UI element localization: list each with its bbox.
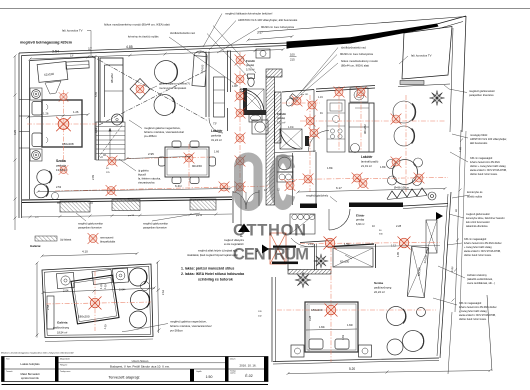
- svg-text:3.51: 3.51: [94, 127, 98, 133]
- wall szoba2 bottom: [273, 358, 439, 362]
- leaders top right: [300, 48, 338, 94]
- svg-text:parapetben kivezetve: parapetben kivezetve: [143, 227, 167, 230]
- svg-text:takarónál elburkolva: takarónál elburkolva: [466, 225, 488, 228]
- svg-text:1.29: 1.29: [99, 283, 104, 289]
- svg-text:Makó Bernadett: Makó Bernadett: [21, 372, 40, 376]
- axis h furdo2: [282, 102, 320, 104]
- svg-text:180x200: 180x200: [311, 308, 323, 312]
- svg-text:3.28: 3.28: [308, 315, 312, 321]
- dining table 90x150: [165, 147, 209, 177]
- svg-text:2.54: 2.54: [52, 50, 59, 54]
- svg-text:90x90 cm ives zuhanyútca: 90x90 cm ives zuhanyútca: [340, 52, 373, 56]
- axis h szoba1: [27, 123, 97, 125]
- svg-text:2.99: 2.99: [91, 174, 95, 180]
- svg-text:100: 100: [290, 53, 295, 57]
- svg-text:meglévő belmagasság:420cm: meglévő belmagasság:420cm: [20, 41, 73, 45]
- stove counter: [290, 214, 315, 234]
- svg-text:parketta: parketta: [211, 134, 222, 138]
- svg-text:1.59¹: 1.59¹: [344, 243, 350, 246]
- svg-text:fa, fehérre mázolva,: fa, fehérre mázolva,: [138, 177, 161, 181]
- couch 98x202: [100, 58, 123, 122]
- red crosshair markers: [56, 55, 424, 317]
- svg-text:1.26: 1.26: [43, 112, 49, 116]
- svg-text:345 cm magasságtól:: 345 cm magasságtól:: [459, 302, 482, 305]
- axis v table: [188, 144, 190, 190]
- svg-text:meglévő gázkonvektor: meglévő gázkonvektor: [469, 89, 495, 93]
- dim left chain: [14, 56, 16, 230]
- leader galaljan: [148, 86, 157, 90]
- svg-text:345 cm magasságtól:: 345 cm magasságtól:: [470, 157, 493, 160]
- svg-text:2.04¹: 2.04¹: [119, 288, 125, 292]
- svg-text:2.95: 2.95: [148, 152, 154, 156]
- leader galeria note: [122, 324, 168, 332]
- leader stove label: [330, 197, 337, 203]
- dim right lower: [448, 312, 452, 374]
- round table: [393, 160, 418, 185]
- svg-text:padlószőnyeg: padlószőnyeg: [53, 326, 70, 330]
- cabinet M top: [256, 49, 270, 58]
- dim chain bottom wall: [22, 214, 232, 217]
- svg-text:90x90 cm ives zuhanyútca: 90x90 cm ives zuhanyútca: [261, 25, 294, 29]
- radiator 1: [60, 201, 90, 212]
- wardrobe 62x100: [37, 61, 68, 82]
- leader radiator labels: [76, 213, 86, 221]
- svg-text:diszléc felett: fehér festés.: diszléc felett: fehér festés.: [459, 318, 487, 321]
- wall jamb segments entry2: [273, 246, 296, 248]
- svg-text:csere textíliáknak, stb...): csere textíliáknak, stb...): [467, 281, 495, 285]
- axis v kitchen b: [360, 86, 362, 150]
- svg-text:Ø=96-108cm: Ø=96-108cm: [394, 186, 409, 190]
- stairs: [96, 122, 125, 160]
- svg-text:mennyezeti lámpatest: mennyezeti lámpatest: [159, 86, 186, 90]
- leader zarhato: [438, 266, 465, 278]
- column black: [305, 136, 309, 146]
- svg-text:diszléc felett: fehér festés.: diszléc felett: fehér festés.: [470, 173, 498, 176]
- svg-text:1.66: 1.66: [214, 150, 220, 154]
- axis v right: [405, 95, 407, 192]
- leader kemeny: [452, 195, 470, 198]
- svg-text:új galéria: új galéria: [138, 169, 149, 173]
- svg-text:kék színű fa konvektor: kék színű fa konvektor: [466, 221, 490, 224]
- svg-text:2.17: 2.17: [257, 31, 263, 35]
- svg-text:tisztító nyílás: tisztító nyílás: [467, 195, 483, 199]
- svg-text:62x180: 62x180: [417, 266, 422, 276]
- svg-text:parapetben kivezetve: parapetben kivezetve: [78, 227, 102, 230]
- svg-text:pv+266cm: pv+266cm: [170, 329, 184, 333]
- svg-text:5.20: 5.20: [349, 367, 355, 371]
- svg-text:mennyezeti: mennyezeti: [100, 236, 114, 240]
- svg-text:fehérre festett Anro RV-06/A d: fehérre festett Anro RV-06/A diszléc: [464, 242, 502, 245]
- dim right chain a: [455, 130, 461, 312]
- svg-text:2.53: 2.53: [161, 289, 165, 295]
- door arcs double corridor: [233, 192, 246, 209]
- svg-text:1:50: 1:50: [206, 375, 213, 379]
- svg-text:18,54 m²: 18,54 m²: [57, 330, 67, 334]
- svg-text:aletta a falszín: NCS S7016-R7: aletta a falszín: NCS S7016-R70B,: [464, 250, 501, 253]
- axis v galeria: [94, 271, 96, 331]
- svg-text:21,01 m²: 21,01 m²: [361, 164, 372, 168]
- svg-text:6.41¹: 6.41¹: [175, 184, 182, 188]
- table texts: [6, 357, 236, 374]
- svg-text:kéménybe kötve, falszínhez has: kéménybe kötve, falszínhez hasonló: [466, 217, 505, 220]
- svg-text:Lakás felújítás: Lakás felújítás: [20, 362, 40, 366]
- svg-text:+ meleg fehér LED szalag: + meleg fehér LED szalag: [464, 246, 492, 249]
- svg-text:215: 215: [290, 58, 295, 62]
- svg-text:parapetben kivezetve: parapetben kivezetve: [469, 93, 494, 97]
- axis v szoba2: [330, 238, 332, 362]
- svg-text:13°: 13°: [70, 55, 74, 58]
- wall furdo2 top: [282, 90, 314, 93]
- wardrobe 62x150: [333, 248, 373, 267]
- galeria outline: [42, 264, 153, 338]
- svg-text:6,92 m²: 6,92 m²: [356, 223, 365, 226]
- svg-text:2.04: 2.04: [63, 289, 69, 293]
- bed 180x208: [42, 100, 82, 147]
- hatched walls bathrooms: [266, 69, 331, 274]
- svg-text:2.53: 2.53: [56, 185, 62, 189]
- svg-text:visszasiszolva: visszasiszolva: [138, 181, 155, 185]
- nightstand right: [359, 345, 372, 357]
- couch2 90x202: [349, 103, 374, 152]
- svg-text:6.17: 6.17: [336, 186, 342, 190]
- entry wall black segments: [300, 204, 317, 209]
- svg-text:Fürdő: Fürdő: [246, 59, 255, 63]
- svg-text:meglévő falikazán kéménybe bek: meglévő falikazán kéménybe bekötve!: [225, 12, 273, 16]
- svg-text:Galéria:: Galéria:: [30, 244, 41, 248]
- armchair r1: [393, 101, 415, 123]
- nightstand left: [291, 345, 304, 357]
- svg-text:Galéria: Galéria: [57, 321, 68, 325]
- svg-text:4.28: 4.28: [458, 146, 462, 152]
- svg-text:1.84²: 1.84²: [347, 323, 353, 327]
- galeria bed 180x200: [71, 275, 119, 324]
- leader 345a: [450, 152, 468, 162]
- wall washer niche: [292, 153, 294, 205]
- svg-text:Tervező:: Tervező:: [6, 371, 13, 373]
- svg-text:2016. 10. 16.: 2016. 10. 16.: [240, 363, 257, 367]
- svg-text:180x208: 180x208: [62, 142, 74, 146]
- svg-text:22,22 m²: 22,22 m²: [374, 290, 385, 294]
- plant right: [430, 91, 444, 105]
- svg-text:greslap: greslap: [277, 117, 286, 120]
- svg-text:kisablakok, (lásd meglévő foly: kisablakok, (lásd meglévő folyosó bejára…: [187, 254, 238, 257]
- svg-text:lámpakioldás: lámpakioldás: [100, 240, 116, 244]
- svg-text:Terv:: Terv:: [6, 359, 10, 361]
- armchair 2: [34, 184, 48, 198]
- armchair blob 1: [155, 61, 178, 84]
- svg-text:OTTHON: OTTHON: [233, 222, 306, 240]
- svg-text:parketta: parketta: [56, 164, 67, 168]
- wall plan right: [440, 192, 451, 358]
- wall bottom left: [22, 197, 232, 200]
- dim top sloped: [30, 50, 283, 60]
- shower furdo2: [280, 129, 302, 149]
- svg-text:építészmérnök: építészmérnök: [21, 376, 39, 380]
- boundary thin upper: [258, 17, 466, 33]
- shower wall L dark: [243, 88, 266, 115]
- svg-text:73°: 73°: [213, 122, 217, 126]
- svg-text:(takartló eszközöknek,: (takartló eszközöknek,: [467, 277, 493, 281]
- dim 5.20 bottom: [288, 371, 490, 374]
- svg-text:2.58: 2.58: [46, 304, 50, 310]
- svg-text:Mindezt a kivitelezés/gyártás: Mindezt a kivitelezés/gyártás megkezdése…: [1, 352, 74, 355]
- dim 2.17 line: [248, 37, 292, 41]
- svg-text:greslap: greslap: [246, 64, 255, 67]
- door arc lakoter: [209, 118, 223, 134]
- svg-text:Dátum:: Dátum:: [230, 357, 236, 360]
- svg-text:5,78 m²: 5,78 m²: [246, 68, 255, 71]
- galeria chairs: [129, 268, 147, 286]
- axis v szoba1: [63, 90, 65, 162]
- leader gazkonvektor right: [444, 85, 467, 93]
- radiator 3: [190, 199, 216, 210]
- svg-text:meglévő gáztűzhely: meglévő gáztűzhely: [306, 195, 329, 198]
- svg-text:1.19: 1.19: [318, 96, 323, 99]
- svg-text:Tervezett alaprajz: Tervezett alaprajz: [108, 374, 139, 379]
- zigzag railing: [387, 188, 427, 199]
- svg-text:Tervlap neve:: Tervlap neve:: [60, 371, 71, 373]
- svg-text:pv+286cm: pv+286cm: [144, 134, 158, 138]
- svg-text:1.12: 1.12: [391, 245, 396, 248]
- svg-text:2. lakás: IKEA Hotel stílusú h: 2. lakás: IKEA Hotel stílusú hálószoba: [181, 272, 244, 276]
- svg-text:pm 93: pm 93: [196, 215, 203, 217]
- svg-text:Ucorn Simon: Ucorn Simon: [132, 359, 149, 363]
- svg-text:meglévő gázkonvektor: meglévő gázkonvektor: [466, 213, 490, 216]
- leader tv left: [87, 31, 91, 58]
- svg-text:4.10: 4.10: [82, 250, 88, 254]
- washer2: [277, 156, 293, 172]
- svg-text:5,11 m²: 5,11 m²: [277, 121, 285, 124]
- svg-text:kéménybe és: kéménybe és: [467, 190, 483, 194]
- svg-text:meglévő galéria megerősítve,: meglévő galéria megerősítve,: [170, 320, 207, 324]
- axis h long bottom: [55, 186, 270, 191]
- coffee table rhombus: [130, 79, 150, 100]
- leader 345b: [447, 243, 462, 245]
- svg-text:Elötér: Elötér: [356, 214, 365, 218]
- washer furdo1: [252, 120, 268, 134]
- svg-text:4.85: 4.85: [126, 45, 133, 49]
- leader tv right: [399, 56, 408, 64]
- plant szoba2 a: [314, 254, 328, 268]
- svg-text:kémény és tisztító nyílás: kémény és tisztító nyílás: [128, 35, 159, 39]
- wall corridor: [232, 191, 234, 223]
- svg-text:1. lakás: párizsi manszárd stí: 1. lakás: párizsi manszárd stílus: [181, 267, 234, 271]
- wall divider szoba/lakoter: [94, 57, 96, 160]
- svg-text:mosógép fölött:: mosógép fölött:: [470, 133, 488, 137]
- svg-text:180x200: 180x200: [78, 315, 90, 319]
- svg-text:greslap: greslap: [356, 219, 365, 222]
- armchairs bottom right: [387, 307, 406, 326]
- svg-text:diszléc felett: fehér festés.: diszléc felett: fehér festés.: [464, 254, 492, 257]
- svg-text:törölközőszárító rad.: törölközőszárító rad.: [341, 46, 367, 50]
- axis v furdo2: [309, 95, 311, 192]
- svg-text:Lépték:: Lépték:: [196, 370, 202, 373]
- door arc stove: [291, 238, 314, 247]
- svg-text:Szoba: Szoba: [56, 159, 66, 163]
- radiator 2: [112, 200, 140, 211]
- leader 62x150: [345, 255, 352, 259]
- leader entry2: [269, 248, 290, 250]
- svg-text:törölközőszárító rad.: törölközőszárító rad.: [170, 31, 196, 35]
- svg-text:fiókos mosdószekrény mosdó (80: fiókos mosdószekrény mosdó (80x44 cm, IK…: [104, 23, 170, 27]
- svg-text:pm 151: pm 151: [301, 94, 309, 96]
- svg-text:padlószőnyeg: padlószőnyeg: [374, 286, 392, 290]
- dim entry row: [300, 246, 440, 248]
- svg-text:1.83¹: 1.83¹: [380, 165, 386, 169]
- galeria nightstand: [47, 296, 54, 329]
- svg-text:4.25: 4.25: [13, 129, 17, 135]
- galeria dim chain right: [158, 262, 159, 333]
- axis v furdo chain: [239, 52, 241, 192]
- svg-text:1.84¹: 1.84¹: [319, 325, 325, 329]
- toilet furdo2: [284, 94, 297, 108]
- marker 2 triangle right: [262, 245, 269, 254]
- watermark logo C: [273, 159, 290, 206]
- sink furdo1: [249, 114, 262, 122]
- leaders top center: [213, 26, 256, 74]
- svg-text:8.45¹: 8.45¹: [450, 266, 455, 272]
- svg-text:5.55: 5.55: [94, 91, 98, 97]
- wall right room top (tv room): [402, 27, 452, 80]
- galeria speaker box left: [56, 272, 74, 288]
- wall left inner: [29, 61, 31, 200]
- dim 2.95: [127, 157, 190, 159]
- dim 6.41: [38, 189, 230, 192]
- bed2 180x200: [305, 302, 358, 352]
- svg-text:álló beszerelés: álló beszerelés: [470, 141, 488, 145]
- marker triangle 2 entry: [436, 212, 443, 220]
- wall furdo1 left: [227, 51, 229, 93]
- svg-text:17: 17: [88, 47, 92, 51]
- svg-text:fehérre mázolva, visszacsiszol: fehérre mázolva, visszacsiszolva!: [170, 324, 212, 328]
- wall szoba2 niche top: [300, 241, 332, 243]
- chaise 62x160: [192, 51, 207, 87]
- wardrobe 62x180 rotated: [407, 246, 428, 297]
- svg-text:Megrendelő:: Megrendelő:: [60, 358, 70, 360]
- thick wedge wall top: [287, 24, 439, 49]
- dim 6.17: [298, 189, 445, 193]
- svg-text:szintvilág és bútorok: szintvilág és bútorok: [198, 278, 233, 282]
- side table: [52, 193, 59, 200]
- svg-text:fehérre festett Anro RV-08/A d: fehérre festett Anro RV-08/A diszléc: [459, 306, 497, 309]
- svg-text:1.26: 1.26: [73, 110, 79, 114]
- wall szoba2 left lower: [271, 277, 273, 362]
- wall right outer: [462, 16, 466, 132]
- speaker bottom: [30, 149, 42, 161]
- washing machine: [350, 88, 368, 102]
- wall kitchen top: [316, 86, 375, 90]
- toilet furdo1: [248, 78, 254, 87]
- svg-text:62x160: 62x160: [200, 64, 205, 73]
- axis h szoba2: [277, 309, 436, 311]
- svg-text:1.89: 1.89: [397, 252, 400, 257]
- svg-text:Fürdő: Fürdő: [277, 112, 286, 116]
- axis h right living 2: [280, 178, 448, 180]
- door arc entry: [329, 209, 350, 230]
- svg-text:1.63: 1.63: [341, 334, 345, 340]
- svg-text:Lakótér: Lakótér: [361, 155, 373, 159]
- svg-text:90x202: 90x202: [363, 124, 367, 134]
- wall left outer: [18, 53, 20, 218]
- svg-text:lépcső!: lépcső!: [138, 173, 146, 177]
- svg-text:fali, konzolos TV: fali, konzolos TV: [62, 29, 83, 33]
- svg-text:ARISTON VLS 100 villanybojler,: ARISTON VLS 100 villanybojler,: [470, 137, 507, 141]
- kitchen cabinets: [327, 100, 345, 152]
- leader gazkonv2: [449, 214, 464, 218]
- dim galeria mid: [43, 288, 155, 293]
- svg-text:ARISTON VLS 100 villanybojler,: ARISTON VLS 100 villanybojler, álló besz…: [238, 18, 298, 22]
- svg-text:+ meleg fehér LED szalag: + meleg fehér LED szalag: [459, 310, 487, 313]
- svg-text:2.28: 2.28: [396, 224, 402, 228]
- armchair r2: [394, 126, 414, 146]
- svg-text:száma:: száma:: [230, 373, 236, 375]
- table frame: [2, 357, 269, 382]
- wall top inner: [30, 57, 96, 61]
- axis h galeria: [46, 302, 151, 304]
- entry wardrobe: [426, 220, 437, 253]
- leader mosogep: [452, 134, 468, 138]
- svg-text:meglévő gázkonvektor: meglévő gázkonvektor: [143, 223, 168, 226]
- svg-text:zárható szekrény: zárható szekrény: [467, 273, 487, 277]
- door arc kitchen hall: [309, 131, 330, 152]
- wall outer top: [19, 43, 287, 53]
- page top rule: [0, 8, 530, 10]
- svg-text:meglévő gázkonvektor: meglévő gázkonvektor: [78, 223, 103, 226]
- svg-text:90x150: 90x150: [192, 164, 202, 168]
- armchair 1: [37, 170, 51, 184]
- svg-text:diszléc + meleg fehér LED szal: diszléc + meleg fehér LED szalag: [470, 165, 506, 168]
- svg-text:31,24 m²: 31,24 m²: [211, 138, 222, 142]
- concentric circle column: [428, 192, 436, 200]
- tv sideboard: [66, 61, 89, 69]
- red renovation box: [270, 233, 286, 264]
- radiator strip below tv room: [400, 81, 424, 85]
- svg-text:fali, konzolos TV: fali, konzolos TV: [411, 54, 432, 58]
- legend new wall sample: [35, 236, 57, 241]
- svg-text:345 cm magasságtól:: 345 cm magasságtól:: [464, 238, 487, 241]
- galeria speaker box right: [113, 268, 129, 283]
- shelf column: [214, 77, 225, 117]
- dim bed1: [28, 115, 88, 118]
- leaders top boiler: [203, 14, 222, 48]
- svg-text:Szoba: Szoba: [374, 281, 383, 285]
- legend lamp symbol: [88, 233, 99, 244]
- leader ujgaleria: [119, 159, 136, 171]
- svg-text:fehérre festett Anro RV-06/A: fehérre festett Anro RV-06/A: [470, 161, 500, 164]
- leader 345c: [433, 298, 457, 305]
- svg-text:aletta a falszín: NCS S7016-R7: aletta a falszín: NCS S7016-R70B,: [459, 314, 496, 317]
- svg-text:(új falazat: (új falazat: [60, 238, 72, 242]
- axis v kitchen a: [338, 86, 340, 150]
- shower furdo1: [240, 89, 264, 113]
- axis h entry: [300, 243, 440, 244]
- wall lakoter right: [205, 52, 207, 118]
- svg-text:É-02: É-02: [245, 373, 252, 378]
- svg-text:fiókos mosdószekrény mosdó: fiókos mosdószekrény mosdó: [341, 59, 378, 63]
- svg-text:1.00¹: 1.00¹: [232, 85, 238, 88]
- axis h table row: [126, 157, 212, 159]
- svg-text:Budapest, V. ker. Petőfi Sándo: Budapest, V. ker. Petőfi Sándor utca 10.…: [110, 365, 170, 369]
- svg-text:(80x44 cm, IKEA) alatt: (80x44 cm, IKEA) alatt: [341, 64, 369, 68]
- cabinet2: [277, 172, 293, 182]
- svg-text:Helyszín:: Helyszín:: [60, 365, 68, 367]
- svg-text:13,68 m²: 13,68 m²: [56, 168, 67, 172]
- plant szoba2 b: [295, 272, 310, 287]
- svg-text:Lakótér: Lakótér: [211, 129, 223, 133]
- gallery dashed diagonals: [92, 56, 208, 121]
- watermark logo O: [239, 157, 259, 207]
- speaker top: [30, 88, 42, 100]
